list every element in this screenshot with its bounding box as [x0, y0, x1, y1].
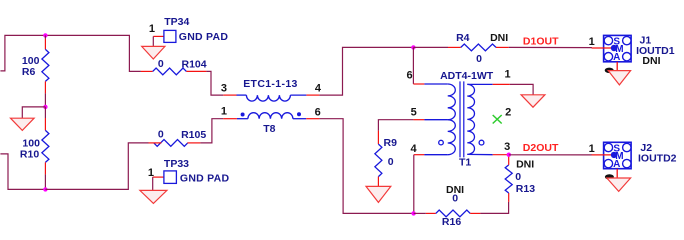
svg-text:IOUTD2: IOUTD2: [638, 153, 677, 165]
svg-text:1: 1: [589, 143, 595, 155]
connector J1 body (SMA): [604, 35, 632, 61]
wire net N3 bottom-left entry: [0, 154, 45, 190]
svg-text:R6: R6: [22, 66, 36, 78]
connector J1 pin lead: [509, 46, 592, 48]
wire T8 pin 6 to node N5: [319, 119, 413, 214]
svg-text:2: 2: [505, 107, 511, 119]
resistor R6: [44, 35, 46, 39]
svg-text:A: A: [613, 159, 620, 170]
svg-text:GND PAD: GND PAD: [180, 173, 230, 185]
J1 mounting mark: [605, 68, 614, 73]
svg-text:TP33: TP33: [164, 158, 189, 170]
node N6 junction at T1 pin 3: [507, 153, 511, 157]
T1 pin 6 lead: [413, 83, 424, 85]
svg-text:R16: R16: [442, 216, 461, 228]
svg-text:1: 1: [589, 36, 595, 48]
svg-text:5: 5: [411, 106, 417, 118]
wire T8 pin 4 to node N4: [319, 47, 413, 95]
wire node N4 to R4: [413, 46, 448, 48]
resistor R4: [448, 46, 461, 48]
testpoint TP34 pin lead: [153, 35, 164, 37]
svg-text:3: 3: [221, 83, 227, 95]
resistor R9: [377, 131, 379, 144]
connector J2 pin lead: [509, 154, 592, 156]
node N5 junction: [411, 211, 415, 215]
node N4 junction: [411, 45, 415, 49]
svg-text:T8: T8: [263, 123, 275, 135]
testpoint TP34 body: [164, 30, 176, 42]
svg-text:ETC1-1-13: ETC1-1-13: [243, 78, 298, 90]
node N1 junction at R6 top: [43, 33, 47, 37]
T8 pin 6 lead: [306, 118, 319, 120]
wire R16 to R13 bottom: [480, 202, 508, 214]
svg-text:1: 1: [505, 69, 511, 81]
transformer T8 secondary winding (pins 1-6): [237, 118, 248, 120]
transformer T1 left winding: [448, 84, 456, 120]
wire node N4 to T1 pin 6: [412, 47, 414, 84]
svg-text:6: 6: [315, 106, 321, 118]
T1 pin 3 lead: [467, 153, 492, 155]
svg-text:1: 1: [149, 23, 155, 35]
svg-text:1: 1: [221, 105, 227, 117]
resistor R105: [154, 140, 188, 147]
T1 pin 4 lead: [414, 154, 425, 156]
svg-text:4: 4: [411, 143, 418, 155]
J2 ground stub: [616, 169, 618, 178]
svg-text:TP34: TP34: [164, 16, 189, 28]
svg-text:R4: R4: [456, 32, 470, 44]
wire T1 pin 4 to node N5: [413, 155, 415, 214]
node N2 mid-left junction: [43, 105, 47, 109]
svg-text:D1OUT: D1OUT: [523, 36, 559, 48]
ground GND at TP33: [140, 190, 167, 203]
resistor R104: [141, 70, 153, 72]
transformer T1 core: [460, 81, 464, 157]
T1 pin 5 lead: [413, 119, 424, 121]
wire T1 pin 1 to ground: [510, 84, 533, 94]
wire R104 to T8 pin 3: [206, 71, 223, 95]
wire R105 to T8 pin 1: [200, 119, 223, 143]
svg-text:3: 3: [504, 141, 510, 153]
T8 polarity dot left: [241, 113, 245, 117]
svg-text:DNI: DNI: [490, 32, 508, 44]
ground GND mid-left: [11, 118, 35, 130]
svg-text:6: 6: [407, 70, 413, 82]
ground GND at TP34: [142, 46, 165, 59]
svg-text:0: 0: [515, 171, 521, 183]
resistor R10: [44, 107, 46, 118]
svg-text:1: 1: [148, 167, 154, 179]
wire T1 pin 5 to R9: [378, 120, 413, 131]
ground GND at J2: [607, 178, 631, 191]
wire net N1 top-left: [0, 35, 141, 71]
svg-text:4: 4: [315, 82, 322, 94]
ground GND at J1: [608, 71, 630, 85]
svg-text:0: 0: [158, 58, 164, 70]
transformer T1 right winding: [467, 84, 474, 154]
svg-text:0: 0: [158, 129, 164, 141]
ground GND at T1 pin 1: [521, 95, 545, 107]
resistor R13: [508, 193, 510, 202]
testpoint TP33 pin lead: [153, 176, 164, 178]
ground GND at R9: [366, 186, 391, 202]
svg-text:ADT4-1WT: ADT4-1WT: [440, 70, 494, 82]
testpoint TP33 body: [164, 171, 177, 184]
T1 polarity dot right (open): [479, 140, 484, 145]
svg-text:0: 0: [452, 193, 458, 205]
svg-text:D2OUT: D2OUT: [523, 142, 559, 154]
svg-text:R13: R13: [516, 183, 535, 195]
svg-text:R105: R105: [181, 129, 206, 141]
T8 pin 1 lead: [223, 118, 237, 120]
svg-text:DNI: DNI: [642, 55, 660, 67]
J1 ground stub: [616, 62, 618, 71]
transformer T8 primary winding (pins 3-4): [223, 94, 236, 96]
svg-text:0: 0: [388, 156, 394, 168]
svg-text:R104: R104: [182, 58, 207, 70]
T8 polarity dot right: [297, 112, 301, 116]
connector J2 body (SMA): [604, 142, 632, 168]
svg-text:DNI: DNI: [516, 159, 534, 171]
J2 mounting mark: [605, 174, 614, 179]
svg-text:GND PAD: GND PAD: [179, 31, 229, 43]
svg-text:0: 0: [476, 53, 482, 65]
T1 polarity dot left (open): [439, 140, 444, 145]
wire to mid-left ground: [22, 107, 45, 118]
svg-text:A: A: [613, 52, 620, 63]
node N3 junction at R10 bottom: [43, 187, 47, 191]
pin 2 no-connect X of T1: [493, 115, 502, 124]
svg-text:R9: R9: [384, 137, 398, 149]
svg-text:T1: T1: [459, 156, 471, 168]
wire node N5 to R16: [414, 212, 426, 214]
resistor R16: [426, 212, 436, 214]
T1 pin 1 lead: [467, 83, 492, 85]
wire net N3 to R105: [45, 143, 148, 190]
svg-text:R10: R10: [20, 149, 39, 161]
